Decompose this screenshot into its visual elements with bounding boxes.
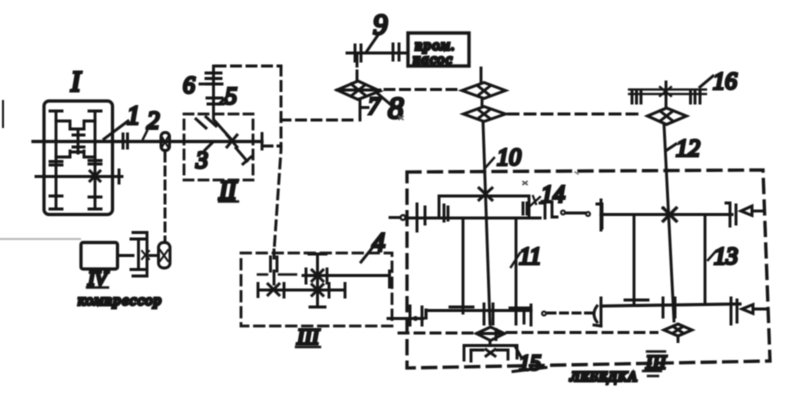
svg-text:10: 10 [497, 145, 521, 171]
svg-text:4: 4 [372, 228, 385, 257]
svg-text:I: I [70, 67, 82, 98]
svg-text:ЛЕБЕДКА: ЛЕБЕДКА [569, 370, 637, 385]
svg-text:8: 8 [388, 90, 404, 125]
svg-text:13: 13 [714, 244, 738, 270]
svg-text:12: 12 [676, 136, 700, 162]
svg-text:6: 6 [183, 73, 195, 99]
svg-text:2: 2 [147, 108, 160, 135]
svg-text:3: 3 [195, 148, 208, 174]
svg-text:9: 9 [373, 9, 388, 41]
svg-text:11: 11 [519, 244, 541, 270]
svg-text:III: III [296, 324, 321, 349]
svg-text:компрессор: компрессор [78, 293, 162, 309]
svg-text:5: 5 [225, 84, 237, 110]
svg-text:1: 1 [127, 101, 140, 130]
svg-text:15: 15 [519, 350, 541, 375]
svg-text:16: 16 [713, 69, 737, 95]
svg-text:14: 14 [541, 182, 565, 208]
svg-text:7: 7 [368, 94, 381, 120]
svg-text:насос: насос [413, 52, 453, 68]
